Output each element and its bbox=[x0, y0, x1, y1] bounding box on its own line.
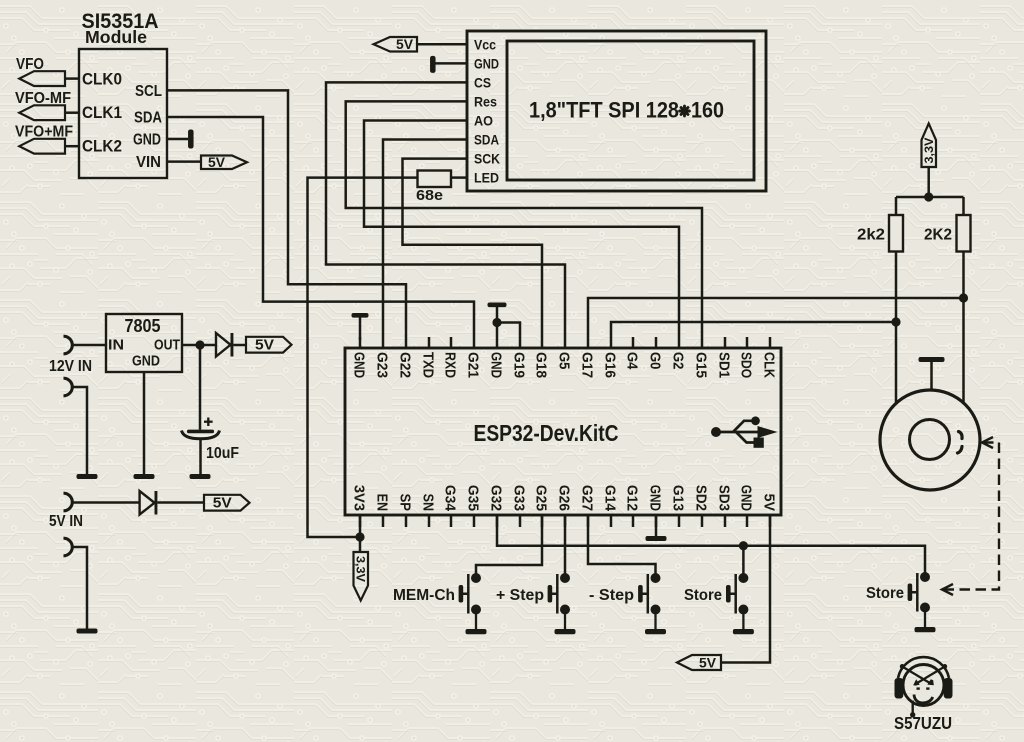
wire SCK: TFT to ESP32 G18 bbox=[403, 159, 543, 337]
pin ESP32 top GND at x=497 bbox=[488, 337, 505, 378]
svg-text:3V3: 3V3 bbox=[351, 485, 368, 511]
wire 5V IN negative to ground bbox=[71, 547, 87, 629]
wire TFT GND pin bbox=[435, 62, 467, 65]
encoder rotation marks bbox=[958, 432, 963, 454]
wire AO: TFT to ESP32 G2 bbox=[364, 121, 679, 338]
connector J2 5V IN negative bbox=[64, 538, 73, 556]
svg-text:SN: SN bbox=[420, 494, 437, 511]
wire SDA: SI5351A to ESP32 G21 bbox=[167, 117, 474, 337]
svg-text:3,3V: 3,3V bbox=[924, 137, 936, 163]
wire G26 to +Step button bbox=[564, 515, 567, 574]
ground bar 5V IN negative bbox=[77, 629, 98, 634]
wire ESP32 5V pin to 5V tag bbox=[721, 515, 770, 663]
encoder ENC1 shaft circle bbox=[910, 420, 950, 460]
node 5V tag at TFT Vcc bbox=[374, 37, 418, 52]
ground bar above ESP32 GND/G19 bbox=[488, 303, 507, 308]
svg-text:G15: G15 bbox=[693, 352, 710, 378]
svg-text:5V: 5V bbox=[396, 37, 413, 52]
resistor R1 2k2 body bbox=[889, 215, 903, 252]
pin ESP32 bottom G33 at x=520 bbox=[511, 485, 528, 527]
svg-text:G27: G27 bbox=[579, 485, 596, 511]
svg-text:3,3V: 3,3V bbox=[354, 556, 366, 582]
pin ESP32 top G16 at x=611 bbox=[602, 337, 619, 378]
wire ground to ESP32 top GND pin bbox=[359, 317, 362, 340]
svg-text:CLK1: CLK1 bbox=[82, 103, 122, 122]
wire R1 to encoder A bbox=[895, 252, 898, 405]
pin ESP32 bottom G25 at x=542 bbox=[533, 485, 550, 527]
pin ESP32 top G5 at x=565 bbox=[556, 337, 573, 369]
wire 3.3V tag to resistors bbox=[927, 167, 930, 197]
pin ESP32 bottom G27 at x=588 bbox=[579, 485, 596, 527]
svg-text:MEM-Ch: MEM-Ch bbox=[393, 587, 455, 604]
pin ESP32 top GND at x=360 bbox=[351, 337, 368, 378]
pin ESP32 top G22 at x=406 bbox=[397, 337, 414, 378]
pushbutton S1 MEM-Ch bbox=[459, 573, 487, 634]
wire 5V IN to diode D2 bbox=[71, 501, 140, 504]
svg-text:12V IN: 12V IN bbox=[49, 358, 92, 375]
svg-text:G18: G18 bbox=[533, 352, 550, 378]
connector J1 12V IN negative bbox=[64, 378, 73, 396]
svg-text:AO: AO bbox=[474, 113, 493, 129]
svg-text:VFO+MF: VFO+MF bbox=[15, 124, 73, 141]
wire SCL: SI5351A to ESP32 G22 bbox=[167, 90, 406, 337]
pin ESP32 bottom G14 at x=611 bbox=[602, 485, 619, 527]
wire ESP32 bottom GND pin bbox=[655, 515, 658, 536]
svg-text:SCL: SCL bbox=[135, 83, 162, 100]
svg-text:SDO: SDO bbox=[738, 352, 755, 378]
pin ESP32 top SDO at x=747 bbox=[738, 337, 755, 378]
wire G32 to Store buttons bbox=[497, 515, 925, 573]
svg-text:CLK0: CLK0 bbox=[82, 70, 122, 89]
svg-text:GND: GND bbox=[133, 132, 161, 149]
svg-text:S57UZU: S57UZU bbox=[894, 713, 952, 733]
wire G17 to encoder B bbox=[588, 298, 964, 337]
svg-text:5V: 5V bbox=[699, 655, 716, 670]
svg-text:160: 160 bbox=[691, 98, 724, 123]
pin ESP32 bottom G35 at x=474 bbox=[465, 485, 482, 527]
wire SDA: TFT to ESP32 G23 bbox=[383, 140, 467, 338]
svg-text:GND: GND bbox=[488, 352, 505, 378]
svg-text:G14: G14 bbox=[602, 485, 619, 512]
junction dot G17/R2 bbox=[959, 293, 968, 302]
wire Res: TFT to ESP32 G15 bbox=[346, 101, 702, 337]
pin ESP32 top G2 at x=679 bbox=[670, 337, 687, 369]
regulator U2 7805 box bbox=[106, 314, 182, 372]
connector J2 5V IN positive bbox=[64, 493, 73, 511]
svg-text:SD2: SD2 bbox=[693, 485, 710, 511]
pin ESP32 bottom G12 at x=633 bbox=[624, 485, 641, 527]
svg-text:VIN: VIN bbox=[136, 154, 161, 171]
svg-text:10uF: 10uF bbox=[206, 445, 239, 462]
node 5V tag at VIN bbox=[201, 156, 247, 170]
svg-text:LED: LED bbox=[474, 170, 499, 186]
pushbutton S3 -Step bbox=[638, 573, 666, 634]
node 5V tag bottom bbox=[677, 655, 721, 670]
module U1 SI5351A box bbox=[79, 49, 167, 178]
pin ESP32 top G17 at x=588 bbox=[579, 337, 596, 378]
svg-text:SDA: SDA bbox=[134, 110, 162, 127]
pushbutton S4 Store bbox=[726, 573, 754, 634]
svg-text:IN: IN bbox=[108, 338, 124, 354]
icon USB on ESP32 bbox=[711, 416, 778, 447]
svg-text:G19: G19 bbox=[511, 352, 528, 378]
junction dot 7805 OUT bbox=[195, 340, 204, 349]
svg-text:G22: G22 bbox=[397, 352, 414, 378]
svg-text:Module: Module bbox=[85, 27, 147, 47]
wire CLK1 to VFO-MF tag bbox=[65, 111, 79, 114]
ground bar at SI5351A GND bbox=[188, 130, 194, 149]
wire G27 to -Step button bbox=[588, 515, 656, 574]
wire CLK0 to VFO tag bbox=[65, 77, 79, 80]
svg-text:G13: G13 bbox=[670, 485, 687, 511]
svg-text:G21: G21 bbox=[465, 352, 482, 378]
logo S57UZU headphones bbox=[895, 657, 953, 717]
pin ESP32 top RXD at x=451 bbox=[442, 337, 459, 378]
svg-text:GND: GND bbox=[738, 485, 755, 511]
svg-text:OUT: OUT bbox=[154, 338, 180, 354]
svg-text:SD3: SD3 bbox=[716, 485, 733, 511]
capacitor C1 10uF bbox=[187, 430, 214, 434]
svg-text:G0: G0 bbox=[647, 352, 664, 369]
svg-text:SD1: SD1 bbox=[716, 352, 733, 378]
wire R2 to encoder B bbox=[962, 252, 965, 405]
pin ESP32 top SD1 at x=725 bbox=[716, 337, 733, 378]
svg-text:68e: 68e bbox=[416, 188, 443, 204]
svg-text:CLK2: CLK2 bbox=[82, 137, 122, 156]
svg-text:G35: G35 bbox=[465, 485, 482, 511]
svg-text:G32: G32 bbox=[488, 485, 505, 511]
pushbutton S5 Store encoder push bbox=[908, 572, 936, 632]
svg-text:CS: CS bbox=[474, 74, 491, 90]
ground bar above encoder bbox=[919, 357, 945, 362]
resistor R2 2K2 body bbox=[957, 215, 971, 252]
wire VIN to 5V tag bbox=[167, 160, 201, 163]
module TFT screen inner box bbox=[507, 41, 754, 180]
svg-text:- Step: - Step bbox=[589, 587, 634, 604]
module TFT 1.8 SPI outer box bbox=[467, 31, 766, 191]
pin ESP32 bottom 3V3 at x=360 bbox=[351, 485, 368, 527]
node 3.3V tag top right bbox=[922, 124, 937, 168]
wire branch to Store button S4 bbox=[742, 546, 745, 574]
svg-text:5V IN: 5V IN bbox=[49, 513, 83, 530]
wire 7805 GND to ground bbox=[143, 372, 146, 474]
svg-text:5V: 5V bbox=[761, 494, 778, 511]
resistor R3 68e body bbox=[418, 171, 452, 188]
svg-text:5V: 5V bbox=[255, 338, 274, 354]
pin ESP32 bottom EN at x=383 bbox=[374, 494, 391, 527]
wire SI5351A GND pin bbox=[167, 138, 188, 141]
svg-text:EN: EN bbox=[374, 494, 391, 511]
wire junction to capacitor bbox=[199, 345, 202, 430]
pin ESP32 top G15 at x=702 bbox=[693, 337, 710, 378]
pin ESP32 top TXD at x=429 bbox=[420, 337, 437, 378]
svg-text:Vcc: Vcc bbox=[474, 36, 496, 52]
svg-text:G33: G33 bbox=[511, 485, 528, 511]
pin ESP32 bottom G34 at x=451 bbox=[442, 485, 459, 527]
connector J1 12V IN positive bbox=[64, 336, 73, 354]
junction dot GND/G19 bbox=[492, 318, 501, 327]
svg-text:2K2: 2K2 bbox=[924, 227, 952, 244]
svg-text:5V: 5V bbox=[213, 496, 232, 512]
node VFO+MF output tag bbox=[19, 139, 65, 154]
wire 12V negative to ground bbox=[71, 387, 87, 474]
pin ESP32 bottom SN at x=429 bbox=[420, 494, 437, 527]
wire LED to resistor 68e bbox=[451, 176, 467, 179]
svg-text:VFO: VFO bbox=[16, 56, 44, 73]
pin ESP32 bottom SP at x=406 bbox=[397, 494, 414, 527]
svg-text:G5: G5 bbox=[556, 352, 573, 369]
wire resistor 68e to 3V3 junction bbox=[308, 178, 418, 537]
svg-text:CLK: CLK bbox=[761, 352, 778, 378]
wire TFT Vcc to 5V tag bbox=[417, 43, 467, 46]
svg-text:G23: G23 bbox=[374, 352, 391, 378]
wire G16 to encoder A bbox=[611, 322, 896, 337]
svg-text:RXD: RXD bbox=[442, 352, 459, 378]
pin ESP32 bottom GND at x=747 bbox=[738, 485, 755, 527]
svg-text:1,8"TFT SPI 128: 1,8"TFT SPI 128 bbox=[529, 98, 679, 123]
svg-text:SCK: SCK bbox=[474, 151, 500, 167]
pushbutton S2 +Step bbox=[548, 573, 576, 634]
wire 7805 OUT to diode bbox=[182, 344, 217, 347]
wire ground to encoder common bbox=[930, 361, 933, 392]
diode D1 bbox=[216, 333, 231, 357]
diode D2 bbox=[140, 491, 155, 515]
module ESP32-Dev.KitC box bbox=[345, 348, 781, 515]
node 5V tag at 7805 output bbox=[246, 337, 292, 353]
svg-text:GND: GND bbox=[132, 354, 160, 370]
ground bar 12V negative bbox=[77, 474, 98, 479]
svg-text:Store: Store bbox=[866, 585, 904, 602]
pin ESP32 top G23 at x=383 bbox=[374, 337, 391, 378]
wire ESP32 3V3 pin to junction bbox=[359, 515, 362, 552]
wire ground to ESP32 GND and G19 bbox=[496, 307, 499, 337]
wire diode D1 to 5V tag bbox=[233, 344, 246, 347]
junction dot Store branch bbox=[739, 541, 748, 550]
svg-text:GND: GND bbox=[647, 485, 664, 511]
svg-text:G16: G16 bbox=[602, 352, 619, 378]
pin ESP32 bottom G32 at x=497 bbox=[488, 485, 505, 527]
wire G25 to MEM-Ch button bbox=[476, 515, 542, 574]
svg-text:5V: 5V bbox=[208, 155, 225, 170]
svg-text:7805: 7805 bbox=[125, 316, 161, 336]
svg-text:Res: Res bbox=[474, 93, 497, 109]
dashed arrow encoder push equals Store bbox=[943, 443, 999, 590]
svg-text:VFO-MF: VFO-MF bbox=[15, 90, 71, 107]
ground bar at TFT GND bbox=[430, 56, 436, 73]
node VFO output tag bbox=[19, 71, 65, 86]
node VFO-MF output tag bbox=[19, 105, 65, 120]
svg-text:G34: G34 bbox=[442, 485, 459, 512]
svg-text:G26: G26 bbox=[556, 485, 573, 511]
pin ESP32 bottom G13 at x=679 bbox=[670, 485, 687, 527]
node 3.3V tag below 3V3 pin bbox=[354, 552, 369, 601]
svg-text:G25: G25 bbox=[533, 485, 550, 511]
ground bar capacitor bbox=[190, 474, 211, 479]
svg-text:G2: G2 bbox=[670, 352, 687, 369]
svg-text:2k2: 2k2 bbox=[857, 227, 885, 244]
svg-text:G12: G12 bbox=[624, 485, 641, 511]
svg-text:+ Step: + Step bbox=[496, 587, 544, 604]
svg-text:GND: GND bbox=[474, 55, 499, 71]
wire CLK2 to VFO+MF tag bbox=[65, 145, 79, 148]
pin ESP32 bottom G26 at x=565 bbox=[556, 485, 573, 527]
svg-text:SDA: SDA bbox=[474, 132, 499, 148]
svg-text:SP: SP bbox=[397, 494, 414, 511]
pin ESP32 top G0 at x=656 bbox=[647, 337, 664, 369]
pin ESP32 bottom SD3 at x=725 bbox=[716, 485, 733, 527]
pin ESP32 bottom 5V at x=770 bbox=[761, 494, 778, 527]
svg-text:TXD: TXD bbox=[420, 352, 437, 378]
wire CS: TFT to ESP32 G5 bbox=[326, 82, 565, 337]
svg-text:G4: G4 bbox=[624, 352, 641, 370]
ground bar below ESP32 GND pin bbox=[646, 536, 667, 541]
pin ESP32 bottom SD2 at x=702 bbox=[693, 485, 710, 527]
junction dot 3.3V feed bbox=[924, 192, 933, 201]
wire 12V to 7805 IN bbox=[71, 344, 106, 347]
pin ESP32 top G18 at x=542 bbox=[533, 337, 550, 378]
svg-text:Store: Store bbox=[684, 587, 722, 604]
pin ESP32 top G4 at x=633 bbox=[624, 337, 641, 370]
pin ESP32 top CLK at x=770 bbox=[761, 337, 778, 378]
encoder ENC1 body circle bbox=[880, 390, 980, 490]
wire diode D2 to 5V tag bbox=[157, 501, 204, 504]
svg-text:GND: GND bbox=[351, 352, 368, 378]
ground bar above ESP32 top GND pin bbox=[352, 313, 369, 318]
node 5V tag at 5V IN bbox=[204, 495, 250, 511]
junction dot G16/R1 bbox=[891, 317, 900, 326]
wire capacitor to ground bbox=[199, 439, 202, 474]
svg-text:G17: G17 bbox=[579, 352, 596, 378]
junction dot 3V3 bbox=[355, 532, 364, 541]
pin ESP32 top G19 at x=520 bbox=[511, 337, 528, 378]
ground bar 7805 GND bbox=[134, 474, 155, 479]
svg-text:ESP32-Dev.KitC: ESP32-Dev.KitC bbox=[474, 420, 619, 446]
pin ESP32 bottom GND at x=656 bbox=[647, 485, 664, 527]
pin ESP32 top G21 at x=474 bbox=[465, 337, 482, 378]
